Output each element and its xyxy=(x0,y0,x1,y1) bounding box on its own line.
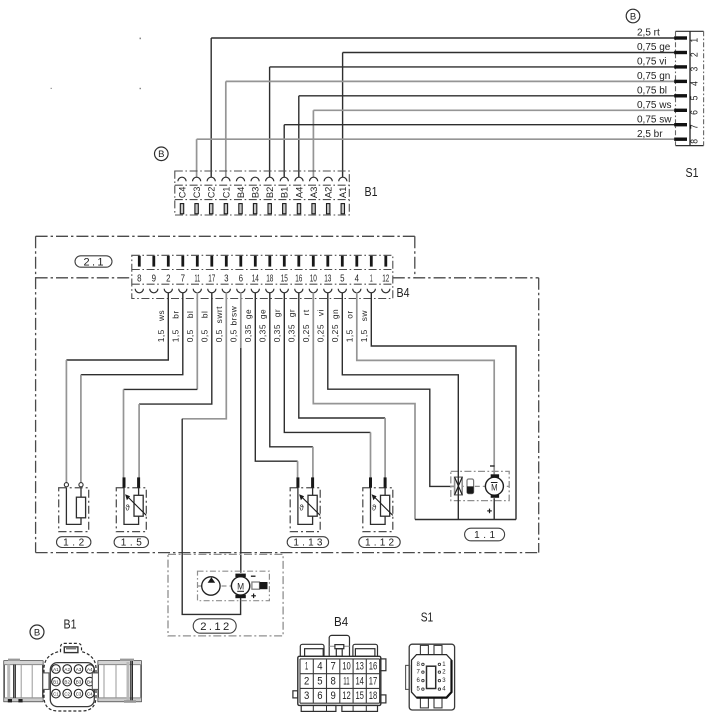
B1 body outline (dashed) xyxy=(44,643,96,711)
wire label 0,5 brsw (B4 pin 6) xyxy=(229,305,239,342)
wire label 0,35 gr (B4 pin 15) xyxy=(272,309,282,343)
svg-text:0,75 ws: 0,75 ws xyxy=(637,100,671,111)
wire 0,75 gn : S1 pin 4 to B1 xyxy=(226,80,687,178)
S1 pin numbers xyxy=(416,662,446,693)
label oval 1.13 xyxy=(287,537,328,549)
B4 grid cells with numbers xyxy=(300,659,380,703)
B1 pin B2 : socket arc, label, pin bar xyxy=(265,177,276,214)
B4 pin 17 : pin bar, number, socket arc xyxy=(208,256,216,293)
svg-text:3: 3 xyxy=(224,272,229,284)
svg-text:ge: ge xyxy=(258,309,268,319)
2.12 minus sign xyxy=(251,575,256,577)
B1 cavity C3 xyxy=(74,689,83,698)
svg-text:0,5: 0,5 xyxy=(214,329,224,342)
wire label 0,25 gn (B4 pin 5) xyxy=(330,309,340,343)
connector S1 drawing outer xyxy=(409,644,454,710)
svg-text:0,5: 0,5 xyxy=(185,329,195,342)
sensor 1.12 dash-dot box xyxy=(363,488,393,532)
wire 2,5 rt : S1 pin 1 to B1 xyxy=(211,36,687,177)
svg-text:6: 6 xyxy=(689,110,701,115)
svg-text:C2: C2 xyxy=(64,691,70,696)
connector S1 (top right socket strip) xyxy=(676,31,704,145)
svg-text:4: 4 xyxy=(689,81,701,86)
2.12 indicator white+black xyxy=(252,582,268,589)
B4 pin 8 : pin bar, number, socket arc xyxy=(135,256,143,293)
B1 pin B4 : socket arc, label, pin bar xyxy=(236,177,247,214)
wire 0,5 bl horizontal xyxy=(124,388,198,390)
svg-text:16: 16 xyxy=(369,661,378,673)
svg-text:2: 2 xyxy=(166,272,171,284)
svg-text:5: 5 xyxy=(340,272,345,284)
sensor 1.2 ring terminals xyxy=(64,483,68,487)
svg-text:B1: B1 xyxy=(365,185,378,199)
svg-text:ϑ: ϑ xyxy=(372,504,377,513)
svg-text:A1: A1 xyxy=(53,667,59,672)
svg-text:1: 1 xyxy=(305,661,308,673)
svg-text:0,75 vi: 0,75 vi xyxy=(637,57,666,68)
B1 cavity B3 xyxy=(74,677,83,686)
B1 pin A2 : socket arc, label, pin bar xyxy=(324,177,335,214)
B1 cavity C1 xyxy=(52,689,61,698)
B1 pin C3 : socket arc, label, pin bar xyxy=(192,177,203,214)
wire label 1,5 sw (B4 pin 1) xyxy=(359,310,369,343)
S1 left bump xyxy=(406,665,410,689)
svg-text:0,25: 0,25 xyxy=(316,324,326,342)
svg-text:8: 8 xyxy=(137,272,142,284)
wire 0,75 ge : S1 pin 2 to B1 xyxy=(343,51,687,178)
wire 0,75 ws : S1 pin 6 to B1 xyxy=(313,109,687,178)
B4 pin 18 : pin bar, number, socket arc xyxy=(266,256,274,293)
sensor 1.5 thermistor arrow and theta xyxy=(125,494,146,515)
wire 0,35 gr B4:15 upper xyxy=(284,292,370,432)
wire 0,35 gr B4:16 upper xyxy=(299,292,385,418)
svg-text:17: 17 xyxy=(369,675,378,687)
1.1 filter icon xyxy=(467,479,474,494)
1.1 motor M xyxy=(485,474,503,498)
svg-text:C4: C4 xyxy=(177,187,188,199)
B4 pin 10 : pin bar, number, socket arc xyxy=(309,256,317,293)
1.1 valve X xyxy=(455,477,463,495)
svg-text:S1: S1 xyxy=(421,611,434,625)
svg-text:7: 7 xyxy=(330,661,335,673)
svg-text:B4: B4 xyxy=(334,614,348,629)
B4 pin 1 : pin bar, number, socket arc xyxy=(367,256,375,293)
1.1 plus sign xyxy=(487,509,492,514)
S1 inner housing octagon xyxy=(412,655,452,698)
svg-text:0,75 bl: 0,75 bl xyxy=(637,86,667,97)
svg-text:sw: sw xyxy=(359,310,369,322)
wire 0,5 bl B4:11 vertical xyxy=(196,292,198,389)
connector B1 drawing: right wing xyxy=(98,659,141,703)
wire label 0,25 rt (B4 pin 10) xyxy=(301,309,311,342)
connector strip B4 (middle) xyxy=(132,255,393,298)
sensor 1.12 thermistor arrow and theta xyxy=(372,494,393,515)
B1 cavity C4 xyxy=(86,689,95,698)
sensor 1.5 dash-dot box xyxy=(116,488,146,532)
svg-text:B4: B4 xyxy=(236,187,247,199)
svg-text:2,5 rt: 2,5 rt xyxy=(637,28,660,39)
svg-text:A2: A2 xyxy=(64,667,70,672)
svg-text:B1: B1 xyxy=(64,618,77,632)
wire 0,5 swrt B4:3 upper xyxy=(182,292,226,418)
wire 1,5 ws B4:2 upper xyxy=(66,292,168,360)
svg-text:gn: gn xyxy=(330,309,340,319)
B4 pin 14 : pin bar, number, socket arc xyxy=(251,256,259,293)
svg-text:9: 9 xyxy=(330,690,335,702)
wire 0,75 sw : S1 pin 7 to B1 xyxy=(284,123,687,178)
1.1 valve box xyxy=(455,477,463,495)
B4 pin 13 : pin bar, number, socket arc xyxy=(324,256,332,293)
label oval 2.1 xyxy=(75,256,112,268)
wire 0,5 bl B4:17 upper xyxy=(139,292,212,404)
svg-text:A4: A4 xyxy=(87,667,93,672)
B4 feet dividers xyxy=(313,705,366,711)
svg-text:ϑ: ϑ xyxy=(299,504,304,513)
svg-text:gr: gr xyxy=(272,309,282,317)
svg-text:B2: B2 xyxy=(265,187,276,199)
B1 cavity B2 xyxy=(63,677,72,686)
svg-text:brsw: brsw xyxy=(229,305,239,325)
S1 top tabs xyxy=(420,645,428,655)
svg-text:0,35: 0,35 xyxy=(287,324,297,342)
B1 inner housing xyxy=(50,663,94,707)
svg-text:S1: S1 xyxy=(686,166,699,180)
svg-text:swrt: swrt xyxy=(214,306,224,324)
svg-text:A1: A1 xyxy=(338,187,349,199)
svg-text:bl: bl xyxy=(200,311,210,319)
wire 0,5 bl to 1.5 left xyxy=(123,389,125,477)
wire 0,35 gr to 1.12 right xyxy=(384,418,386,478)
svg-text:1.12: 1.12 xyxy=(365,538,394,549)
svg-text:0,35: 0,35 xyxy=(272,324,282,342)
wire 0,35 ge B4:18 upper xyxy=(270,292,313,446)
B1 pin C4 : socket arc, label, pin bar xyxy=(177,177,188,214)
component 1.1 dash-dot box xyxy=(451,471,509,500)
B4 pin 16 : pin bar, number, socket arc xyxy=(295,256,303,293)
B4 pin 11 : pin bar, number, socket arc xyxy=(193,256,201,293)
wire label 0,5 bl (B4 pin 17) xyxy=(200,311,210,343)
svg-text:C3: C3 xyxy=(192,187,203,199)
svg-text:11: 11 xyxy=(343,675,349,687)
B4 center latch tab xyxy=(329,635,349,656)
svg-text:B2: B2 xyxy=(64,679,70,684)
sensor 1.12 internal circuit xyxy=(371,488,390,525)
svg-text:13: 13 xyxy=(355,661,364,673)
S1 bottom tabs xyxy=(420,698,428,708)
svg-text:B1: B1 xyxy=(53,679,59,684)
wire 0,35 ge B4:14 upper xyxy=(255,292,297,461)
label oval 1.5 xyxy=(114,537,148,549)
B1 cavity B4 xyxy=(86,677,95,686)
svg-text:2: 2 xyxy=(689,52,701,57)
svg-text:2.12: 2.12 xyxy=(200,621,229,633)
sensor 1.13 thermistor arrow and theta xyxy=(299,494,320,515)
B1 cavity A1 xyxy=(52,665,61,674)
svg-text:2,5 br: 2,5 br xyxy=(637,129,663,140)
wire 1,5 ws to 1.2 left xyxy=(65,360,67,483)
sensor 1.5 internal circuit xyxy=(124,488,143,525)
sensor 1.13 dash-dot box xyxy=(290,488,320,532)
svg-text:B: B xyxy=(630,11,636,22)
wire label 1,5 ws (B4 pin 2) xyxy=(156,310,166,343)
wire label 1,5 or (B4 pin 4) xyxy=(345,310,355,342)
svg-text:0,75 sw: 0,75 sw xyxy=(637,114,672,125)
sensor 1.13 terminal pin bars xyxy=(296,477,299,487)
wire label 1,5 br (B4 pin 7) xyxy=(171,310,181,342)
svg-text:B3: B3 xyxy=(76,679,82,684)
svg-text:15: 15 xyxy=(355,690,364,702)
2.12 motor M xyxy=(231,574,249,599)
wire label 0,5 swrt (B4 pin 3) xyxy=(214,306,224,342)
svg-text:3: 3 xyxy=(304,690,309,702)
svg-text:gr: gr xyxy=(287,309,297,317)
B1 cavity A2 xyxy=(63,665,72,674)
component 2.12 outer dash-dot box xyxy=(168,554,283,636)
B1 pin B1 : socket arc, label, pin bar xyxy=(280,177,291,214)
svg-text:B3: B3 xyxy=(251,187,262,199)
connector B1 drawing: left wing xyxy=(4,659,43,703)
svg-text:0,35: 0,35 xyxy=(258,324,268,342)
svg-text:1: 1 xyxy=(370,272,373,284)
wire 0,35 gr to 1.12 left xyxy=(370,432,372,477)
svg-text:10: 10 xyxy=(310,272,317,284)
svg-text:B4: B4 xyxy=(397,286,410,300)
svg-text:0,25: 0,25 xyxy=(301,324,311,342)
wire 1,5 sw B4:1 to 1.1 rail right xyxy=(371,292,516,519)
svg-text:9: 9 xyxy=(152,272,157,284)
svg-text:1.13: 1.13 xyxy=(293,538,322,549)
svg-text:18: 18 xyxy=(266,272,273,284)
label oval 1.1 xyxy=(465,528,505,541)
B4 pin 4 : pin bar, number, socket arc xyxy=(353,256,361,293)
svg-text:1.1: 1.1 xyxy=(474,530,495,541)
svg-text:2: 2 xyxy=(304,675,309,687)
B1 pin A3 : socket arc, label, pin bar xyxy=(309,177,320,214)
wire 0,35 ge to 1.13 right xyxy=(312,447,314,478)
svg-text:6: 6 xyxy=(317,690,322,702)
svg-text:vi: vi xyxy=(316,309,326,316)
wire 0,5 brsw B4:6 upper xyxy=(240,292,242,348)
B1 pin A4 : socket arc, label, pin bar xyxy=(294,177,305,214)
B4 pin 12 : pin bar, number, socket arc xyxy=(382,256,390,293)
B4 top-right tab xyxy=(353,644,378,656)
sensor 1.2 dash-dot box xyxy=(59,488,89,532)
B1 cavity A3 xyxy=(74,665,83,674)
wire 0,5 swrt lower to 2.12 M plus xyxy=(182,419,240,615)
svg-text:7: 7 xyxy=(689,124,701,129)
svg-text:13: 13 xyxy=(324,272,331,284)
svg-text:0,35: 0,35 xyxy=(243,324,253,342)
svg-text:A4: A4 xyxy=(294,187,305,199)
svg-text:6: 6 xyxy=(239,272,244,284)
2.12 link dash-dot line xyxy=(198,585,270,587)
svg-text:17: 17 xyxy=(208,272,215,284)
svg-text:7: 7 xyxy=(181,272,186,284)
svg-text:8: 8 xyxy=(689,139,701,144)
svg-text:1,5: 1,5 xyxy=(345,329,355,342)
B4 pin 7 : pin bar, number, socket arc xyxy=(179,256,187,293)
svg-text:14: 14 xyxy=(252,272,259,284)
2.12 plus sign xyxy=(251,594,256,599)
sensor 1.12 terminal pin bars xyxy=(369,477,372,487)
wire 1,5 or B4:4 to 1.1 M minus xyxy=(357,292,494,474)
svg-text:C1: C1 xyxy=(221,187,232,199)
svg-text:br: br xyxy=(171,310,181,318)
svg-text:10: 10 xyxy=(342,661,351,673)
B1 pin B3 : socket arc, label, pin bar xyxy=(251,177,262,214)
B4 pin 15 : pin bar, number, socket arc xyxy=(280,256,288,293)
svg-text:1: 1 xyxy=(689,38,701,43)
sensor 1.2 internal circuit xyxy=(66,488,85,525)
speck marks (scan dots) xyxy=(140,38,141,40)
2.12 pump circle with triangle xyxy=(202,577,220,595)
wire 1.1 M plus to rail xyxy=(493,498,495,519)
boundary box 2.1 device (dash-dot) xyxy=(36,236,539,552)
svg-text:3: 3 xyxy=(689,67,701,72)
connector B4 drawing body xyxy=(298,656,381,705)
wire label 0,35 gr (B4 pin 16) xyxy=(287,309,297,343)
svg-text:5: 5 xyxy=(317,675,322,687)
svg-text:12: 12 xyxy=(382,272,389,284)
svg-text:1,5: 1,5 xyxy=(156,329,166,342)
svg-text:C2: C2 xyxy=(207,187,218,199)
wire 0,75 vi : S1 pin 3 to B1 xyxy=(270,65,687,177)
svg-text:B1: B1 xyxy=(280,187,291,199)
wire 1,5 br to 1.2 right xyxy=(80,375,82,483)
B1 cavity B1 xyxy=(52,677,61,686)
B4 bottom feet xyxy=(301,705,336,711)
svg-text:C1: C1 xyxy=(53,691,59,696)
svg-text:B: B xyxy=(34,628,40,639)
wire 0,25 gn B4:5 to valve/rail xyxy=(342,292,458,519)
label oval 1.2 xyxy=(57,537,91,549)
svg-text:14: 14 xyxy=(355,675,364,687)
wire label 0,35 ge (B4 pin 14) xyxy=(243,309,253,343)
svg-text:0,75 ge: 0,75 ge xyxy=(637,42,671,53)
svg-text:A3: A3 xyxy=(309,187,320,199)
B4 pin 2 : pin bar, number, socket arc xyxy=(164,256,172,293)
svg-text:C3: C3 xyxy=(76,691,82,696)
svg-text:4: 4 xyxy=(355,272,360,284)
B4 pin 6 : pin bar, number, socket arc xyxy=(237,256,245,293)
B1 cavity C2 xyxy=(63,689,72,698)
circled B (top left near B1 strip) xyxy=(155,147,169,161)
svg-text:1,5: 1,5 xyxy=(359,329,369,342)
wire 1,5 br B4:7 upper xyxy=(81,292,183,374)
label oval 2.12 xyxy=(193,619,236,633)
svg-text:15: 15 xyxy=(281,272,288,284)
1.1 internal dash-dot link xyxy=(451,485,509,487)
svg-text:rt: rt xyxy=(301,309,311,315)
svg-text:B: B xyxy=(158,149,164,160)
wire label 0,35 ge (B4 pin 18) xyxy=(258,309,268,343)
svg-text:11: 11 xyxy=(195,272,201,284)
circled B (top right near S1) xyxy=(626,9,640,23)
svg-text:1.2: 1.2 xyxy=(63,538,84,549)
B1 pin C2 : socket arc, label, pin bar xyxy=(207,177,218,214)
svg-text:4: 4 xyxy=(317,661,322,673)
svg-text:1,5: 1,5 xyxy=(171,329,181,342)
B1 side tabs xyxy=(43,673,49,690)
svg-text:C4: C4 xyxy=(87,691,93,696)
wire 0,5 brsw lower to 2.12 M minus xyxy=(240,348,242,573)
wire 2,5 br : S1 pin 8 to B1 xyxy=(197,138,687,178)
svg-text:A3: A3 xyxy=(76,667,82,672)
svg-text:0,75 gn: 0,75 gn xyxy=(637,71,670,82)
sensor 1.13 internal circuit xyxy=(298,488,317,525)
svg-text:ws: ws xyxy=(156,310,166,322)
B4 pin 9 : pin bar, number, socket arc xyxy=(150,256,158,293)
wire 0,75 bl : S1 pin 5 to B1 xyxy=(299,94,687,177)
svg-text:18: 18 xyxy=(369,690,378,702)
svg-text:bl: bl xyxy=(185,311,195,319)
svg-text:ϑ: ϑ xyxy=(125,504,130,513)
1.1 minus sign xyxy=(490,465,495,467)
B4 side bumps xyxy=(293,691,298,698)
svg-text:A2: A2 xyxy=(324,187,335,199)
svg-text:0,5: 0,5 xyxy=(229,329,239,342)
svg-text:8: 8 xyxy=(330,675,335,687)
wire 0,5 bl to 1.5 right xyxy=(138,404,140,477)
svg-text:M: M xyxy=(491,483,497,493)
svg-text:5: 5 xyxy=(689,95,701,100)
svg-text:0,5: 0,5 xyxy=(200,329,210,342)
connector strip B1 (top) xyxy=(175,171,349,215)
svg-text:2.1: 2.1 xyxy=(84,256,104,268)
svg-text:16: 16 xyxy=(295,272,302,284)
sensor 1.5 terminal pin bars xyxy=(123,477,126,487)
wire 0,25 rt B4:10 to 1.1 rail xyxy=(313,292,415,519)
B4 pin 3 : pin bar, number, socket arc xyxy=(222,256,230,293)
wire label 0,5 bl (B4 pin 11) xyxy=(185,311,195,343)
svg-text:or: or xyxy=(345,310,355,318)
B1 pin A1 : socket arc, label, pin bar xyxy=(338,177,349,214)
label oval 1.12 xyxy=(359,537,400,549)
wire label 0,25 vi (B4 pin 13) xyxy=(316,309,326,342)
svg-text:12: 12 xyxy=(342,690,351,702)
svg-text:0,25: 0,25 xyxy=(330,324,340,342)
wire 0,25 vi B4:13 to 1.1 valve left xyxy=(328,292,455,486)
B4 pin 5 : pin bar, number, socket arc xyxy=(338,256,346,293)
svg-text:M: M xyxy=(237,581,244,592)
B1 cavity A4 xyxy=(86,665,95,674)
B1 pin C1 : socket arc, label, pin bar xyxy=(221,177,232,214)
wire 1.1 bottom rail xyxy=(415,519,516,521)
2.12 inner dash-dot box xyxy=(198,571,270,601)
S1 center keyway xyxy=(427,666,436,688)
svg-text:ge: ge xyxy=(243,309,253,319)
circled B (bottom left) xyxy=(30,625,44,639)
svg-text:1.5: 1.5 xyxy=(121,538,142,549)
B4 top-left tab xyxy=(300,644,324,656)
wire 0,35 ge to 1.13 left xyxy=(297,461,299,477)
